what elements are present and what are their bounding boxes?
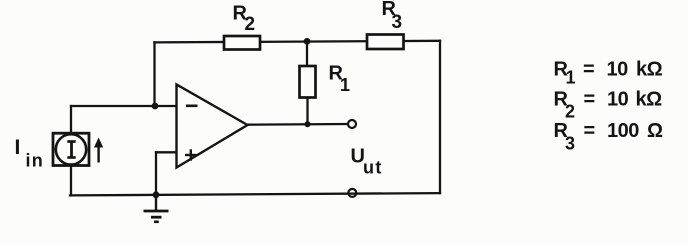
resistor R3 [367, 35, 404, 50]
svg-text:=: = [583, 59, 595, 81]
value R3 = 100 Ohm [554, 120, 664, 153]
wire R1 top lead [306, 42, 308, 66]
svg-text:3: 3 [392, 12, 403, 33]
value R2 = 10 kOhm [554, 88, 663, 121]
wire current source top lead [70, 106, 72, 134]
svg-text:1: 1 [340, 75, 350, 95]
resistor R1 [300, 66, 316, 98]
node R1 top junction [304, 38, 311, 45]
svg-text:in: in [26, 150, 45, 170]
label R2 [233, 3, 256, 36]
label Uut [351, 145, 383, 177]
node ground junction [153, 191, 160, 198]
wire right vertical [439, 41, 441, 193]
ground [144, 195, 169, 222]
svg-text:kΩ: kΩ [636, 59, 663, 81]
node output junction [305, 121, 311, 127]
wire top feedback rail [155, 41, 441, 43]
terminal Uut output [348, 120, 356, 128]
svg-text:Ω: Ω [647, 120, 663, 142]
current source I [53, 133, 89, 165]
wire R1 bottom lead [306, 98, 308, 125]
svg-text:=: = [584, 88, 596, 110]
wire non-inverting input vertical to ground rail [155, 152, 157, 195]
op-amp U1 [177, 85, 248, 168]
svg-text:2: 2 [565, 101, 575, 121]
svg-text:I: I [15, 136, 21, 159]
wire left feedback vertical [153, 42, 155, 106]
label Iin [15, 136, 45, 170]
svg-text:1: 1 [566, 68, 576, 88]
svg-text:kΩ: kΩ [636, 88, 663, 110]
svg-text:10: 10 [607, 88, 629, 110]
label R3 [382, 0, 403, 33]
terminal bottom reference [348, 189, 356, 197]
wire current source bottom lead [70, 165, 72, 195]
svg-text:=: = [584, 120, 596, 142]
svg-text:2: 2 [245, 14, 256, 35]
current direction arrow [94, 138, 103, 163]
svg-text:10: 10 [607, 59, 629, 81]
wire bottom rail [70, 193, 440, 195]
value R1 = 10 kOhm [554, 59, 663, 88]
resistor R2 [224, 36, 260, 50]
label R1 [329, 62, 351, 95]
node inverting input junction [152, 103, 159, 110]
wire op-amp output [248, 123, 349, 126]
svg-text:3: 3 [565, 134, 575, 154]
wire non-inverting input horizontal [156, 151, 177, 153]
svg-text:100: 100 [607, 120, 639, 142]
wire inverting input horizontal [71, 105, 177, 107]
svg-text:ut: ut [363, 158, 383, 178]
